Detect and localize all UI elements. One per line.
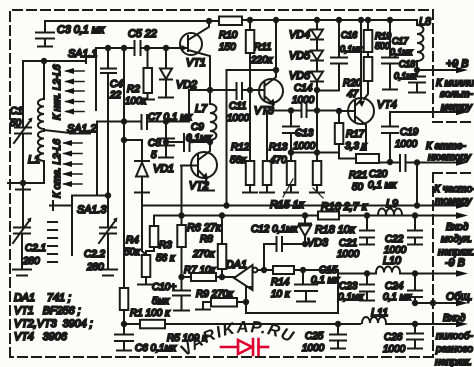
wire: riser x226 to rail A — [226, 70, 228, 205]
svg-text:1000: 1000 — [384, 245, 407, 256]
node: C8/C9 mid — [164, 140, 168, 144]
node: R8 bottom — [220, 275, 224, 279]
wire: C12 line y244 — [264, 243, 305, 245]
svg-text:VT1: VT1 — [186, 57, 206, 69]
svg-text:L1: L1 — [28, 154, 40, 166]
svg-text:R21: R21 — [349, 170, 367, 181]
node: C13 top — [289, 108, 293, 112]
capacitor C2.2 variable — [99, 196, 118, 276]
node: R11 top — [248, 18, 252, 22]
diode VD3 — [299, 216, 311, 245]
svg-text:R20: R20 — [343, 78, 362, 89]
capacitor C18 — [409, 70, 425, 93]
svg-text:C24: C24 — [385, 281, 404, 292]
capacitor C11 — [237, 83, 243, 99]
svg-text:C11: C11 — [229, 101, 247, 112]
wire: y90 base line — [242, 89, 264, 91]
resistor R20 — [364, 52, 373, 99]
svg-text:Вход: Вход — [443, 313, 466, 324]
resistor R1 — [120, 288, 129, 324]
svg-text:1000: 1000 — [292, 95, 315, 106]
wire: frequency-meter exit y205 — [417, 205, 460, 207]
capacitor C16 — [331, 20, 347, 91]
node: +9V — [415, 68, 419, 72]
node: R9 right — [244, 300, 248, 304]
potentiometer R21 — [339, 154, 400, 163]
svg-text:56 к: 56 к — [156, 253, 176, 264]
svg-text:C2.2: C2.2 — [84, 249, 106, 260]
svg-text:К милли-: К милли- — [436, 78, 474, 89]
inductor L8 — [417, 20, 423, 70]
resistor R15 — [284, 153, 298, 193]
diode VD2 — [159, 48, 173, 98]
svg-text:R14: R14 — [271, 277, 290, 288]
svg-text:1000: 1000 — [337, 249, 360, 260]
arrowhead attenuator — [456, 159, 468, 165]
svg-text:C25: C25 — [305, 331, 324, 342]
node: C4 top — [106, 46, 110, 50]
op-amp DA1 — [234, 265, 273, 313]
wire: VT3 collector riser x276 — [275, 20, 277, 70]
resistor R2 — [141, 48, 154, 100]
svg-text:DA1 741 ;: DA1 741 ; — [14, 292, 71, 304]
node: chain/emitter rail — [315, 108, 319, 112]
transistor VT4 — [348, 90, 374, 151]
wire: y152 row — [291, 152, 339, 154]
svg-text:Общ.: Общ. — [446, 291, 473, 303]
wire: top rail y20 right — [242, 19, 417, 21]
node: bus x124 top — [122, 46, 126, 50]
svg-text:R13: R13 — [269, 142, 288, 153]
svg-text:0,1 мк: 0,1 мк — [311, 275, 341, 286]
svg-text:C20: C20 — [369, 169, 388, 180]
wire: C8 to C9 — [166, 141, 183, 143]
wire: VT4 emitter riser — [360, 20, 362, 90]
node: rail B C21 — [365, 213, 369, 217]
node: collector rail — [274, 18, 278, 22]
inductor L7 — [210, 90, 216, 142]
svg-text:C8: C8 — [148, 138, 161, 149]
node: rail B R6 — [179, 213, 183, 217]
diode VD6 — [311, 72, 323, 111]
svg-text:напряж.: напряж. — [435, 357, 472, 367]
arrowhead millivoltmeter — [456, 109, 468, 115]
svg-text:C7 0,1 мк: C7 0,1 мк — [148, 112, 193, 123]
wire: SA1.3 to C2.2 node — [72, 195, 108, 197]
capacitor C10 electrolytic — [173, 277, 190, 311]
svg-text:R8: R8 — [200, 234, 213, 245]
switch SA1.2 wiper bar — [70, 133, 90, 135]
diode chain VD4 — [311, 20, 323, 50]
node: VT1 source at y90 — [208, 88, 212, 92]
svg-text:C22: C22 — [385, 234, 404, 245]
transistor VT3 — [259, 72, 283, 110]
svg-text:R10: R10 — [219, 30, 238, 41]
wire: chain to R16 — [316, 110, 318, 161]
inductor L11 — [362, 317, 460, 324]
arrowhead modul input — [456, 212, 468, 218]
svg-text:R18 10к: R18 10к — [315, 224, 356, 236]
svg-text:56к: 56к — [230, 155, 247, 166]
resistor R14 — [273, 266, 303, 274]
capacitor C1 variable — [14, 61, 33, 183]
svg-text:К нач. L2-L6: К нач. L2-L6 — [52, 64, 63, 120]
capacitor C4 — [101, 48, 116, 195]
svg-text:C3 0,1 мк: C3 0,1 мк — [57, 24, 105, 36]
svg-text:L7: L7 — [195, 103, 208, 115]
svg-text:VD5: VD5 — [289, 50, 311, 62]
wire: millivoltmeter line y112 — [390, 111, 460, 113]
wire: top rail y21 left — [45, 20, 219, 22]
svg-text:R2: R2 — [127, 84, 140, 95]
node: common border — [431, 301, 435, 305]
inductor L10 — [376, 267, 400, 273]
arrowhead -9V — [456, 270, 468, 276]
wire: L10 rail from corner — [338, 273, 460, 275]
node: C17 top — [388, 18, 392, 22]
wire: rail B y215 — [154, 215, 460, 217]
svg-text:1000: 1000 — [395, 139, 418, 150]
node: C8 top — [164, 119, 168, 123]
node: L7 bottom / VT2 collector — [208, 140, 212, 144]
switch SA1.1 wiper wire y61 — [23, 58, 86, 63]
wire: R13 drop — [266, 111, 268, 162]
resistor R12 — [243, 90, 257, 193]
node: C23 — [365, 271, 369, 275]
resistor R4 column — [138, 251, 154, 285]
node: y70/x276 — [274, 68, 278, 72]
svg-text:C6 0,1мк: C6 0,1мк — [135, 343, 177, 354]
resistor R5 — [124, 320, 360, 329]
svg-text:50: 50 — [10, 118, 22, 129]
node: emitter rail — [359, 18, 363, 22]
transistor VT2 — [191, 142, 217, 191]
svg-text:R19: R19 — [375, 31, 391, 41]
svg-text:VT2,VT3 3904 ;: VT2,VT3 3904 ; — [14, 318, 93, 330]
svg-text:1000: 1000 — [293, 141, 316, 152]
node: L1 top — [42, 59, 46, 63]
svg-text:К атте-: К атте- — [426, 141, 466, 152]
wire: bus x124 — [123, 48, 125, 288]
svg-text:0,1мк: 0,1мк — [390, 47, 413, 57]
node: y152/x291 — [289, 150, 293, 154]
wire: emitter rail y110 — [267, 110, 339, 112]
svg-text:C16: C16 — [341, 30, 357, 40]
inductor L1 — [38, 61, 70, 183]
capacitor C22 — [408, 216, 422, 245]
node: bus/VD1 — [122, 138, 126, 142]
svg-text:+9 В: +9 В — [446, 58, 469, 70]
svg-text:К часто-: К часто- — [434, 184, 474, 195]
svg-text:1000: 1000 — [383, 344, 406, 355]
wire: rail A y205 — [142, 205, 417, 207]
node: C24 — [413, 271, 417, 275]
node: rail A x226 — [224, 203, 228, 207]
node: bus/y121 — [122, 119, 126, 123]
wire: y48 gate rail — [96, 47, 181, 49]
svg-text:VD6: VD6 — [289, 70, 310, 82]
svg-text:C9: C9 — [191, 122, 204, 133]
wire: y90 rail — [189, 89, 236, 91]
capacitor C17 — [382, 20, 398, 90]
resistor R19 — [364, 20, 373, 52]
svg-text:Вход: Вход — [446, 222, 469, 233]
svg-text:C17: C17 — [392, 36, 409, 46]
capacitor C20 — [400, 155, 406, 171]
node: VD6 bottom — [315, 88, 319, 92]
node: base/R17 — [337, 109, 341, 113]
resistor R11 — [246, 20, 255, 89]
node: R1 bottom — [122, 322, 126, 326]
svg-text:модул.: модул. — [441, 234, 472, 245]
svg-text:R9 270к: R9 270к — [196, 289, 234, 300]
diode VD5 — [311, 51, 323, 72]
node: R11 bottom / base — [248, 88, 252, 92]
arrowhead common — [456, 300, 468, 306]
svg-text:вольт-: вольт- — [440, 89, 474, 100]
svg-text:VT4 3906: VT4 3906 — [14, 331, 67, 343]
svg-text:VD3: VD3 — [307, 237, 328, 249]
capacitor C6 — [115, 324, 133, 351]
svg-text:VD4: VD4 — [289, 29, 310, 41]
node: rail A x417 — [415, 203, 419, 207]
svg-text:C5 22: C5 22 — [128, 28, 157, 40]
svg-text:0,1 мк: 0,1 мк — [383, 292, 413, 303]
switch SA1.2 contact bar — [96, 122, 98, 183]
resistor R8 — [218, 216, 227, 278]
wire: VD6 node to C16 — [317, 90, 339, 92]
capacitor C13 — [283, 110, 299, 161]
svg-text:R11: R11 — [254, 42, 272, 53]
svg-text:10 к: 10 к — [271, 289, 291, 300]
svg-text:C19: C19 — [400, 127, 419, 138]
node: x417/y162 — [415, 160, 419, 164]
svg-text:C10+: C10+ — [152, 282, 176, 293]
svg-text:разного: разного — [435, 344, 473, 355]
capacitor C5 — [135, 41, 141, 55]
capacitor C3 — [36, 22, 54, 47]
capacitor C25 — [330, 324, 346, 349]
capacitor C12 — [277, 237, 283, 251]
svg-text:C2.1: C2.1 — [25, 243, 46, 254]
parts list text block — [14, 292, 93, 343]
node: C12 right / VD3 — [303, 242, 307, 246]
svg-text:VT4: VT4 — [377, 99, 397, 111]
svg-text:R3: R3 — [159, 240, 172, 251]
node: C16 top — [337, 18, 341, 22]
resistor R9 — [196, 298, 246, 310]
svg-text:R17: R17 — [346, 129, 365, 140]
ground stub below node — [16, 183, 30, 190]
svg-text:C14: C14 — [294, 83, 313, 94]
svg-text:DA1: DA1 — [226, 259, 247, 271]
red varicap logo — [221, 339, 268, 355]
watermark varikap.ru — [177, 318, 312, 360]
resistor R6 — [177, 216, 186, 278]
node: R6 bottom junction — [179, 275, 183, 279]
wire: VT2 base lead — [181, 165, 198, 167]
svg-text:280: 280 — [22, 256, 40, 267]
svg-text:L9: L9 — [386, 198, 398, 210]
wire: SA1.2 riser to y121 — [96, 122, 98, 194]
capacitor C19 — [382, 112, 398, 162]
node: R19 top — [366, 18, 370, 22]
resistor R13 — [260, 161, 274, 193]
resistor R7 — [182, 273, 235, 281]
leader line R16 — [313, 188, 323, 198]
svg-text:0,1мк: 0,1мк — [394, 71, 417, 81]
node: C25 — [336, 322, 340, 326]
wire: VT2 base riser — [181, 166, 183, 216]
capacitor C23 — [360, 274, 374, 301]
capacitor C26 — [407, 324, 423, 349]
switch SA1.1 tap arrows — [66, 71, 84, 112]
svg-text:C12 0,1мк: C12 0,1мк — [251, 224, 299, 235]
node: C2.2 top — [106, 193, 110, 197]
svg-text:метру: метру — [441, 102, 473, 113]
svg-text:1000: 1000 — [302, 343, 325, 354]
svg-text:R12: R12 — [231, 142, 250, 153]
node: R14 right / C15 — [301, 268, 305, 272]
wire: common (Obsh) y303 — [415, 302, 460, 304]
wire: L1 bottom to border — [8, 182, 44, 184]
svg-text:50: 50 — [352, 182, 364, 193]
svg-text:R1 100 к: R1 100 к — [130, 308, 171, 319]
capacitor C14 — [302, 104, 307, 117]
svg-text:0,1 мк: 0,1 мк — [368, 180, 398, 191]
svg-text:нюатору: нюатору — [428, 152, 472, 163]
capacitor C24 — [408, 274, 422, 304]
svg-text:100к: 100к — [125, 96, 148, 107]
svg-text:5мк: 5мк — [152, 296, 170, 307]
svg-text:L11: L11 — [371, 307, 388, 319]
resistor R18 — [318, 212, 339, 220]
diode VD1 — [124, 140, 149, 251]
svg-text:VT2: VT2 — [189, 180, 209, 192]
wire: attenuator line y162 — [406, 162, 461, 164]
wire: C9 to L7 column — [190, 141, 210, 143]
svg-text:470: 470 — [270, 155, 287, 166]
svg-text:270к: 270к — [192, 249, 216, 260]
svg-text:220к: 220к — [250, 55, 274, 66]
node A: rail/VT1 drain — [207, 19, 211, 23]
svg-text:C1: C1 — [10, 106, 23, 117]
leader line R15 — [283, 179, 293, 197]
wire: to filter corner — [303, 269, 338, 271]
svg-text:SA1.3: SA1.3 — [77, 204, 106, 216]
node: x23/y183 — [21, 181, 25, 185]
wire: y121 C7 line — [97, 90, 189, 122]
capacitor C8 — [158, 121, 174, 158]
svg-text:1000: 1000 — [227, 113, 250, 124]
svg-text:К отв. L2-L6: К отв. L2-L6 — [52, 139, 63, 198]
svg-text:150: 150 — [219, 42, 236, 53]
node: common — [413, 301, 417, 305]
wire: feedback loop — [246, 270, 338, 313]
svg-text:SA1.1: SA1.1 — [68, 48, 97, 60]
node: rail B C22 — [413, 213, 417, 217]
svg-text:5: 5 — [151, 150, 157, 161]
capacitor C2.1 variable — [13, 218, 32, 276]
svg-text:C23: C23 — [339, 281, 358, 292]
resistor R10 — [219, 17, 242, 26]
arrowhead sawtooth input — [456, 321, 468, 327]
svg-text:C18: C18 — [399, 59, 415, 69]
switch SA1.2 tap arrows — [64, 143, 82, 184]
node: VD2 top — [164, 46, 168, 50]
wire: VT4 base y111 — [339, 110, 355, 112]
svg-text:22: 22 — [109, 90, 122, 101]
resistor R17 — [335, 111, 344, 158]
wire: DA1 out riser to C12 — [263, 244, 265, 270]
node: C26 — [413, 322, 417, 326]
switch SA1.3 — [48, 196, 72, 263]
svg-text:3,3 к: 3,3 к — [345, 141, 368, 152]
svg-text:R4: R4 — [126, 235, 139, 246]
transistor VT1 — [180, 21, 210, 90]
arrowhead +9V — [456, 67, 468, 73]
arrowhead frequency meter — [456, 202, 468, 208]
svg-text:R6 27к: R6 27к — [187, 222, 222, 234]
svg-text:50к: 50к — [124, 247, 141, 258]
inductor L9 — [378, 209, 402, 215]
svg-text:280: 280 — [86, 262, 104, 273]
svg-text:0,1мк: 0,1мк — [338, 292, 365, 303]
svg-text:R7 10к: R7 10к — [184, 265, 217, 276]
node: y152/x317 — [315, 150, 319, 154]
svg-text:VT1 BF256 ;: VT1 BF256 ; — [14, 305, 81, 317]
node: rail B R8 — [220, 213, 224, 217]
node: R2 top — [145, 46, 149, 50]
node: C19 bottom — [388, 160, 392, 164]
svg-text:C4: C4 — [110, 79, 123, 90]
capacitor C7 — [142, 115, 148, 129]
svg-text:-9 В: -9 В — [445, 257, 465, 269]
svg-text:L8: L8 — [419, 16, 431, 28]
svg-text:C21: C21 — [339, 238, 357, 249]
svg-text:0,1мк: 0,1мк — [340, 44, 363, 54]
svg-text:пилооб-: пилооб- — [436, 330, 473, 342]
wire: x23 down to C2.1 — [22, 190, 24, 227]
wire: +9V arrow — [417, 69, 460, 71]
wire: y70 collector branch — [227, 69, 276, 71]
capacitor C9 — [184, 134, 190, 151]
svg-text:L10: L10 — [383, 255, 401, 267]
node: DA1 out — [262, 268, 266, 272]
wire: riser x417 to rail A — [416, 163, 418, 206]
svg-text:С13: С13 — [295, 128, 314, 139]
node: rail B VD3 — [303, 213, 307, 217]
svg-text:VD1: VD1 — [153, 163, 174, 175]
switch SA1.1 contact bar — [95, 48, 97, 110]
node: VD4 top — [315, 18, 319, 22]
capacitor C15 — [295, 270, 317, 302]
capacitor C21 — [360, 216, 374, 245]
svg-text:500: 500 — [375, 41, 390, 51]
resistor R16 — [310, 161, 324, 193]
svg-text:C26: C26 — [384, 332, 403, 343]
svg-text:томеру: томеру — [435, 196, 472, 207]
resistor R3 column — [146, 216, 158, 256]
